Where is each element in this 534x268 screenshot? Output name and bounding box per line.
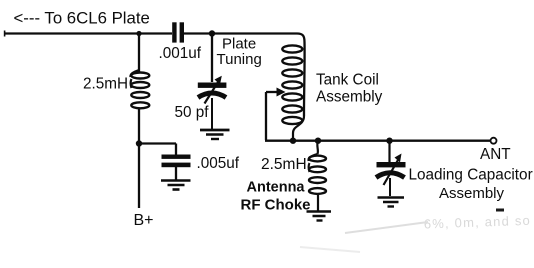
svg-text:Tank Coil: Tank Coil (316, 72, 379, 89)
svg-text:B+: B+ (134, 212, 154, 229)
svg-text:.005uf: .005uf (197, 155, 240, 172)
svg-text:Antenna: Antenna (247, 180, 306, 196)
svg-text:Assembly: Assembly (316, 89, 383, 106)
svg-text:2.5mH: 2.5mH (261, 156, 307, 173)
svg-text:Loading Capacitor: Loading Capacitor (409, 167, 533, 184)
svg-text:Plate: Plate (222, 36, 256, 53)
svg-text:ANT: ANT (480, 146, 511, 163)
svg-text:Assembly: Assembly (439, 185, 505, 202)
svg-text:Tuning: Tuning (217, 51, 262, 68)
svg-text:2.5mH: 2.5mH (83, 76, 128, 93)
svg-text:.001uf: .001uf (159, 45, 202, 62)
svg-text:<--- To 6CL6 Plate: <--- To 6CL6 Plate (14, 9, 150, 28)
svg-text:50 pf: 50 pf (175, 104, 210, 121)
svg-text:RF Choke: RF Choke (241, 197, 311, 214)
